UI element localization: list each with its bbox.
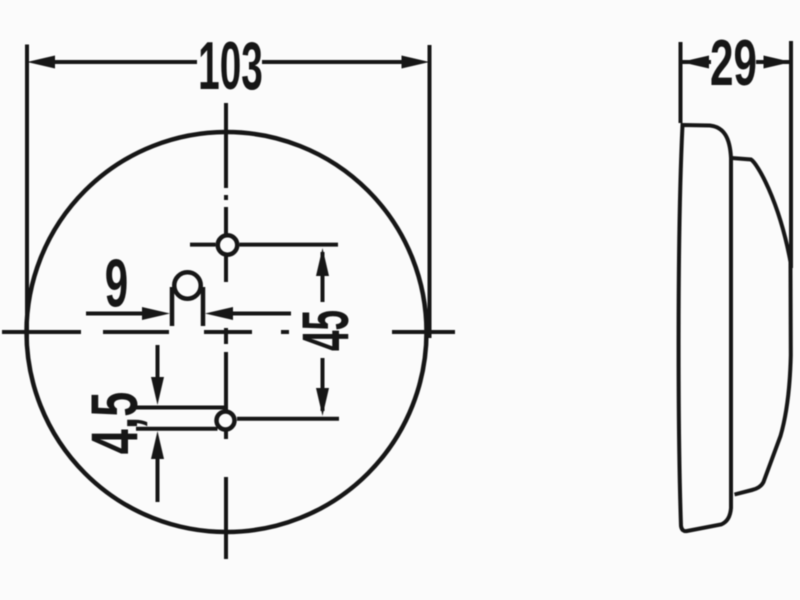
dimension 4,5: lower arrow pointing up <box>151 431 164 502</box>
svg-text:9: 9 <box>105 245 128 321</box>
top mounting hole <box>218 235 238 255</box>
dimension 4,5: tangent lines at bottom hole <box>136 408 224 429</box>
dimension 29: extension lines <box>681 41 792 268</box>
svg-text:103: 103 <box>198 28 263 104</box>
vertical centerline (dash-dot) <box>224 103 228 559</box>
side view: lens profile <box>732 158 791 495</box>
extension line right of bottom hole (45 dim, lower) <box>237 417 339 421</box>
dimension 29: dimension line with outward arrows <box>681 56 792 69</box>
dimension 9: leader lines with inward arrows <box>86 307 291 320</box>
side view: housing outline <box>679 125 731 531</box>
extension line through top hole (45 dim, upper) <box>190 243 338 247</box>
bottom mounting hole <box>217 412 235 430</box>
horizontal centerline (dash-dot) <box>2 330 455 334</box>
dimension 45: vertical dimension line with arrows <box>316 248 329 416</box>
mounting tab (keyhole) <box>172 272 203 326</box>
lamp face outline (big circle, front view) <box>27 132 427 532</box>
svg-text:29: 29 <box>710 26 757 100</box>
svg-text:45: 45 <box>290 310 363 351</box>
dimension 4,5: upper arrow pointing down <box>151 345 164 405</box>
svg-text:4,5: 4,5 <box>77 392 151 454</box>
dimension 103: extension lines <box>27 45 430 341</box>
dimension 103: dimension line with outward arrows <box>27 56 430 69</box>
